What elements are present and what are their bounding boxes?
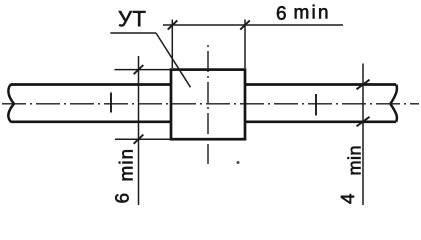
vertical centerline of hub (207, 41, 209, 164)
extension line hub right edge up (244, 20, 246, 69)
extension line hub top edge left (115, 69, 171, 71)
right dimension line vertical (362, 64, 364, 206)
left break line (8, 85, 14, 122)
shaft lower outline left segment (11, 120, 172, 123)
right dimension label 4 (rotated) (341, 194, 354, 204)
top dimension label min (295, 5, 328, 19)
left dimension tick bottom (134, 135, 144, 144)
top dimension label 6 (277, 6, 286, 19)
top dimension tick right (240, 20, 250, 29)
left tick on centerline (110, 93, 112, 113)
right dimension tick top (357, 80, 370, 90)
weld leader shelf (110, 32, 156, 34)
right tick on centerline (315, 94, 317, 116)
top dimension tick left (168, 20, 178, 29)
right break line (390, 85, 397, 122)
shaft lower outline right segment (245, 120, 396, 123)
scan speck (237, 161, 240, 164)
left dimension tick top (134, 65, 144, 74)
right dimension tick bottom (357, 117, 370, 127)
top dimension line (163, 24, 343, 26)
extension line hub bottom edge left (115, 138, 170, 140)
horizontal centerline (2, 103, 419, 105)
left dimension line vertical (138, 56, 140, 205)
left dimension label min (rotated) (119, 150, 133, 180)
extension line hub left edge up (171, 20, 173, 69)
weld leader diagonal (156, 33, 191, 87)
weld label УТ (119, 11, 146, 26)
left dimension label 6 (rotated) (115, 194, 128, 203)
shaft upper outline right segment (245, 83, 396, 86)
hub (welded plate) rectangle (171, 70, 245, 140)
shaft upper outline left segment (11, 83, 172, 86)
right dimension label min (rotated) (347, 147, 360, 175)
